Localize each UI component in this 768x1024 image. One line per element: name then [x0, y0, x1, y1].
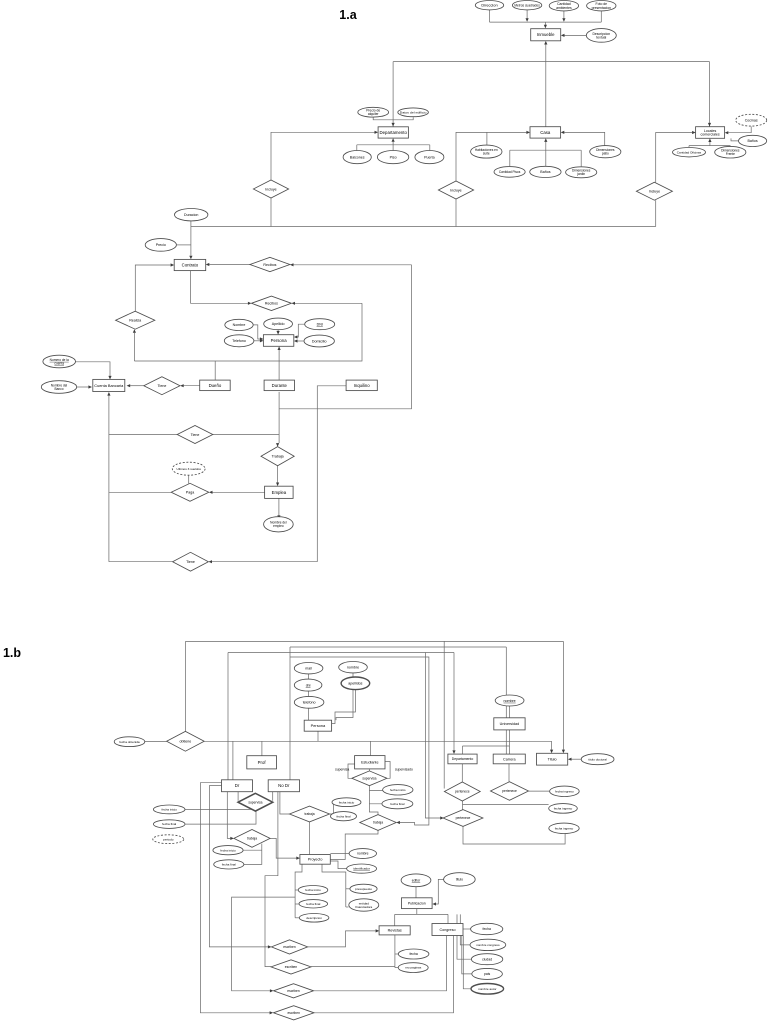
wire bus down to Titulo: [562, 641, 564, 749]
svg-text:Congreso: Congreso: [440, 928, 456, 932]
arrowhead: [526, 18, 529, 22]
attribute fecha final supervisa E: [382, 799, 413, 809]
svg-text:Inquilino: Inquilino: [354, 383, 371, 388]
attribute nombre congreso: [470, 939, 506, 950]
wire to ciudad: [457, 914, 471, 959]
wire to fecha: [395, 953, 399, 955]
attribute Dimensiones jardin: [566, 167, 597, 178]
wire Casa attribute bracket: [510, 149, 581, 151]
attribute Nombre del empleo: [264, 517, 294, 532]
wire to Estudiante top: [370, 741, 372, 755]
svg-text:Paga: Paga: [186, 491, 194, 495]
wire to Dueno top: [214, 361, 216, 380]
arrowhead into Persona top: [277, 331, 280, 335]
wire editor to Publicacion: [415, 887, 417, 898]
svg-text:Frente: Frente: [726, 152, 735, 156]
attribute presupuesto: [350, 884, 377, 893]
relationship supervisa Dr: [238, 793, 273, 811]
wire Incluye1 to bus: [270, 198, 272, 227]
svg-text:empleo: empleo: [273, 524, 284, 528]
svg-text:escriben: escriben: [283, 945, 296, 949]
arrowhead into Inmueble bottom: [544, 41, 547, 45]
wire trabaja A to Proyecto: [270, 838, 296, 858]
wire down to Carrera top: [505, 647, 507, 754]
wire Habitaciones en suite spur: [486, 132, 488, 145]
svg-text:1.b: 1.b: [3, 646, 21, 660]
wire Dr to escriben 4: [200, 783, 270, 1013]
wire bus branch to pertenece: [443, 641, 445, 788]
svg-text:Baños: Baños: [540, 170, 550, 174]
attribute Habitaciones en suite: [471, 145, 502, 158]
attribute Direccion: [475, 1, 503, 10]
attribute Nombre del Banco: [41, 381, 76, 394]
wire Dr-Departamento bus: [228, 652, 454, 654]
wire fecha obtencion to obtiene: [145, 740, 167, 742]
attribute Dimensiones patio: [590, 146, 621, 158]
attribute Apellido: [264, 318, 293, 330]
entity No Dr: [268, 780, 299, 792]
arrowhead into Titulo top: [562, 750, 565, 754]
svg-text:Cantidad Pisos: Cantidad Pisos: [499, 170, 521, 174]
arrowhead into pertenece 3: [440, 816, 444, 819]
svg-text:fecha obtenida: fecha obtenida: [119, 740, 140, 744]
wire bus down to obtiene top: [185, 641, 187, 731]
arrowhead into Persona right: [294, 339, 298, 342]
attribute fecha inicio trabaja A: [213, 846, 243, 855]
wire obtiene-Titulo bus: [186, 640, 564, 642]
attribute Cantidad Oficinas: [673, 148, 706, 157]
wire bracket to Locales bottom: [709, 142, 711, 146]
arrowhead into Persona left: [260, 337, 264, 340]
wire to Piso: [392, 145, 394, 151]
wire to Dimensiones jardin: [580, 150, 582, 166]
arrowhead into Casa left: [526, 131, 530, 134]
svg-text:Ultimos 3 sueldos: Ultimos 3 sueldos: [176, 467, 201, 471]
arrowhead into Titulo top: [550, 750, 553, 754]
wire No Dr-Carrera bus: [290, 646, 506, 648]
svg-text:fecha: fecha: [409, 952, 417, 956]
svg-text:apellidos: apellidos: [348, 682, 362, 686]
wire Estudiante supervisa loop left: [348, 764, 355, 778]
wire Universidad bracket: [463, 745, 510, 747]
svg-text:nombre congreso: nombre congreso: [476, 943, 500, 947]
attribute nro paginas: [398, 963, 428, 973]
svg-text:identificador: identificador: [353, 867, 370, 871]
svg-text:alquiler: alquiler: [368, 112, 380, 116]
relationship pertenece 1: [444, 782, 480, 801]
wire pertenece to pertenece 3: [462, 801, 464, 810]
arrowhead: [562, 18, 565, 22]
relationship trabaja C: [360, 815, 396, 831]
svg-text:presupuesto: presupuesto: [355, 887, 372, 891]
wire Dueno to Tiene: [184, 385, 200, 387]
wire Trabaja to Emplea: [277, 466, 279, 483]
svg-text:pais: pais: [484, 972, 491, 976]
arrowhead into Inmueble right: [561, 34, 565, 37]
attribute pais: [472, 968, 503, 979]
arrowhead into Persona bottom: [278, 346, 281, 350]
wire Incluye to Departamento: [271, 132, 375, 180]
attribute fecha revista: [398, 949, 429, 959]
wire trabaja A to fecha final: [244, 844, 262, 865]
wire mail-dni: [308, 674, 310, 680]
attribute fecha inicio trabaja B: [332, 798, 361, 807]
attribute ciudad: [471, 954, 502, 965]
wire Tiene 2 to Durante line: [213, 434, 279, 436]
attribute Dimensiones Frente: [715, 146, 746, 158]
wire down to Titulo: [551, 741, 553, 750]
svg-text:Contrato: Contrato: [182, 263, 199, 268]
entity Inmueble: [531, 29, 561, 41]
relationship Incluye 1: [253, 180, 288, 198]
svg-text:fecha ingreso: fecha ingreso: [555, 789, 574, 793]
svg-text:trabaja: trabaja: [304, 812, 314, 816]
svg-text:Publicacion: Publicacion: [408, 902, 426, 906]
arrowhead into Tiene right vertex: [180, 384, 184, 387]
svg-text:trabaja: trabaja: [373, 821, 383, 825]
svg-text:Emplea: Emplea: [272, 490, 287, 495]
svg-text:Cantidad Oficinas: Cantidad Oficinas: [677, 150, 702, 154]
svg-text:Domicilio: Domicilio: [312, 339, 327, 343]
wire titulo doctoral to Titulo: [571, 758, 582, 760]
wire to presupuesto: [346, 888, 350, 890]
arrowhead into Revistas left: [376, 929, 380, 932]
attribute fecha congreso: [471, 923, 503, 934]
svg-text:fecha final: fecha final: [162, 822, 176, 826]
svg-text:Trabaja: Trabaja: [272, 455, 284, 459]
attribute Nombre: [225, 319, 253, 330]
attribute Datos del edificio: [398, 108, 429, 117]
svg-text:Apellido: Apellido: [272, 322, 285, 326]
wire Universidad bottom: [508, 730, 510, 746]
wire Locales attribute bracket: [689, 145, 730, 147]
entity Publicacion: [402, 898, 433, 909]
svg-text:Datos del edificio: Datos del edificio: [400, 110, 427, 114]
svg-text:Recibos: Recibos: [265, 302, 278, 306]
wire Publicacion subtype bracket: [395, 913, 448, 915]
entity Dueno: [200, 380, 231, 391]
wire No Dr to escriben 2: [265, 792, 278, 967]
svg-text:nombre: nombre: [504, 699, 516, 703]
svg-text:Dr: Dr: [235, 783, 240, 788]
wire generalization bus horizontal: [393, 61, 709, 63]
attribute periodo: [153, 835, 184, 844]
attribute Foto de presentacion: [587, 1, 616, 11]
svg-text:Baños: Baños: [747, 139, 757, 143]
attribute nombre universidad: [495, 695, 524, 706]
wire Recibos loop down to Durante line: [279, 265, 411, 409]
arrowhead into Cuenta Bancaria right: [127, 384, 131, 387]
svg-text:fecha: fecha: [483, 927, 491, 931]
arrowhead into Paga right vertex: [209, 491, 213, 494]
svg-text:Prof: Prof: [258, 760, 267, 765]
svg-text:nombre: nombre: [347, 666, 359, 670]
attribute Ultimos 3 sueldos: [172, 462, 205, 475]
attribute entidad financiadora: [349, 899, 379, 911]
svg-text:1.a: 1.a: [339, 8, 357, 22]
attribute apellidos: [341, 677, 370, 690]
attribute Banos Casa: [530, 166, 561, 177]
wire No Dr to trabaja B: [280, 792, 290, 814]
wire to Tiene 3 left: [109, 561, 173, 563]
entity Carrera: [493, 754, 525, 764]
attribute Duracion: [175, 209, 208, 221]
svg-text:fecha final: fecha final: [390, 802, 404, 806]
svg-text:fecha ingreso: fecha ingreso: [554, 807, 573, 811]
wire bracket to Departamento bottom: [392, 142, 394, 145]
svg-text:Estudiante: Estudiante: [361, 761, 378, 765]
svg-text:Banco: Banco: [54, 387, 63, 391]
arrowhead into Tiene 3 right vertex: [208, 560, 212, 563]
wire Estudiante to supervisa: [368, 769, 370, 771]
arrowhead into Locales right: [725, 131, 729, 134]
wire Cocinas to Locales: [728, 126, 751, 132]
attribute Telefono: [224, 335, 254, 347]
wire trabaja C to Proyecto right: [330, 830, 378, 859]
attribute fecha final supervisa D: [153, 820, 185, 829]
wire trabaja B to fecha final: [331, 814, 334, 816]
wire escriben 1 to Revistas: [308, 931, 376, 947]
wire branch to pertenece 3 left: [425, 653, 440, 819]
arrowhead into Departamento top: [392, 123, 395, 127]
wire obtiene branch to Dr top: [232, 741, 234, 779]
entity Revistas: [379, 926, 410, 935]
svg-text:fecha final: fecha final: [306, 902, 320, 906]
wire Banos to Locales: [731, 138, 739, 141]
svg-text:pertenece: pertenece: [502, 789, 517, 793]
wire DNI to Persona: [297, 324, 304, 337]
relationship Recibos 2: [251, 296, 291, 310]
arrowhead into Cuenta Bancaria left: [88, 385, 92, 388]
attribute fecha ingreso 2: [549, 804, 578, 814]
entity Titulo: [537, 753, 568, 765]
wire Precio de alquiler / Datos del edificio bracket: [373, 117, 413, 120]
svg-text:nombre: nombre: [357, 852, 369, 856]
svg-text:Direccion: Direccion: [481, 3, 497, 8]
arrowhead into escriben 1: [268, 945, 272, 948]
svg-text:Titulo: Titulo: [548, 758, 557, 762]
svg-text:titulo doctoral: titulo doctoral: [588, 757, 607, 761]
arrowhead into Locales left: [692, 131, 696, 134]
svg-text:fecha inicio: fecha inicio: [339, 800, 355, 804]
arrowhead into trabaja A left vertex: [230, 837, 234, 840]
wire nombre to Universidad: [509, 706, 511, 718]
svg-text:descripcion: descripcion: [306, 916, 322, 920]
arrowhead into ellipse: [277, 515, 280, 519]
wire Departamento to pertenece: [461, 764, 463, 782]
wire Numero de la cuenta to Cuenta Bancaria top: [76, 362, 111, 376]
attribute fecha ingreso 3: [549, 823, 579, 833]
relationship Incluye 2: [438, 181, 473, 199]
wire titulo to Publicacion: [436, 879, 444, 904]
relationship escriben 4: [273, 1006, 314, 1020]
wire Persona bottom: [317, 731, 319, 741]
wire Proyecto to nombre: [330, 853, 349, 855]
wire Incluye2 to bus: [455, 199, 457, 227]
relationship Paga: [171, 483, 209, 501]
wire Recibos 2 loop to Realiza: [134, 303, 362, 361]
attribute Descripcion textual: [586, 29, 616, 43]
wire to Tiene 2 left: [109, 434, 177, 436]
wire Incluye bus horizontal: [191, 226, 656, 228]
wire pertenece 2 to fecha ingreso: [529, 790, 550, 792]
entity Locales comerciales: [696, 127, 725, 139]
relationship Tiene 3: [173, 552, 209, 571]
wire bus to Departamento: [392, 62, 394, 127]
wire to Paga left: [109, 491, 171, 493]
relationship trabaja B: [290, 806, 330, 822]
arrowhead into Cuenta Bancaria top: [108, 376, 111, 380]
wire trabaja B to fecha inicio: [330, 802, 334, 814]
wire Durante to Persona: [278, 350, 280, 380]
wire Durante to Trabaja: [278, 392, 280, 443]
attribute identificador: [347, 864, 377, 873]
entity Durante: [264, 380, 294, 391]
svg-text:suite: suite: [483, 152, 490, 156]
wire fecha final to supervisa: [185, 811, 256, 824]
relationship pertenece 2: [491, 782, 529, 801]
relationship Incluye 3: [636, 182, 672, 200]
arrowhead into Departamento bottom: [392, 138, 395, 142]
entity Estudiante: [355, 756, 385, 769]
arrowhead into Casa bottom: [544, 138, 547, 142]
attribute Domicilio: [304, 335, 334, 347]
wire Inquilino loop to Tiene 3: [212, 561, 317, 563]
wire trabaja B to Proyecto top: [309, 822, 311, 855]
attribute nombre persona: [339, 662, 368, 673]
arrowhead into Publicacion right: [432, 902, 436, 905]
wire telefono to Persona top: [308, 708, 310, 720]
wire fecha inicio to supervisa: [185, 808, 256, 810]
attribute Cocinas: [736, 114, 767, 126]
svg-text:nro paginas: nro paginas: [405, 966, 422, 970]
entity Cuenta Bancaria: [93, 379, 125, 391]
attribute titulo publicacion: [444, 873, 476, 886]
svg-text:DNI: DNI: [317, 323, 323, 327]
relationship Tiene 2: [177, 426, 213, 444]
svg-text:nombre autor: nombre autor: [478, 987, 496, 991]
svg-text:presentacion: presentacion: [592, 6, 612, 10]
wire to nombre congreso: [460, 914, 470, 945]
entity Persona 1b: [304, 720, 331, 731]
svg-text:Departamento: Departamento: [380, 130, 408, 135]
attribute fecha obtencion: [114, 737, 145, 747]
wire to Cantidad Oficinas: [688, 146, 690, 147]
arrowhead into Cuenta Bancaria bottom: [107, 392, 110, 396]
relationship supervisa Estudiante: [352, 771, 387, 786]
svg-text:obtiene: obtiene: [180, 740, 192, 744]
wire supervisa to trabaja C: [369, 804, 378, 815]
arrowhead into Casa right: [561, 131, 565, 134]
attribute Puerta: [415, 151, 444, 164]
wire supervisa to fecha final: [369, 791, 381, 804]
wire to Dimensiones Frente: [729, 146, 731, 147]
wire Realiza to Contrato: [135, 265, 170, 311]
arrowhead into Trabaja top: [276, 443, 279, 447]
entity Congreso: [432, 924, 463, 936]
wire Metros cuadrados to bracket: [526, 10, 528, 21]
relationship escriben 3: [274, 984, 314, 998]
svg-text:Balcones: Balcones: [350, 155, 365, 159]
wire to descripcion: [295, 917, 300, 919]
wire to fecha inicio: [295, 889, 299, 891]
svg-text:Casa: Casa: [540, 130, 551, 135]
svg-text:Telefono: Telefono: [232, 339, 246, 343]
attribute Piso: [377, 151, 408, 164]
arrowhead into Realiza bottom: [133, 329, 136, 333]
svg-text:telefono: telefono: [303, 701, 316, 705]
wire rail to escriben 3: [232, 897, 296, 991]
arrowhead into Contrato right: [206, 263, 210, 266]
attribute Numero de la cuenta: [43, 355, 76, 368]
svg-text:Tiene: Tiene: [186, 560, 195, 564]
wire right loop to Recibos 2: [295, 302, 362, 304]
attribute nombre autor: [471, 984, 504, 995]
arrowhead into escriben 3: [270, 989, 274, 992]
wire Dimensiones patio to Casa: [564, 132, 605, 145]
wire Emplea to Nombre del empleo: [278, 499, 280, 516]
svg-text:jardin: jardin: [576, 172, 585, 176]
svg-text:supervisa: supervisa: [248, 800, 262, 804]
svg-text:dni: dni: [306, 683, 311, 687]
svg-text:Nombre: Nombre: [233, 323, 246, 327]
svg-text:periodo: periodo: [163, 837, 174, 841]
svg-text:Inmueble: Inmueble: [537, 32, 555, 37]
svg-text:Tiene: Tiene: [191, 433, 200, 437]
attribute Cantidad Pisos: [494, 167, 525, 178]
arrowhead into Emplea top: [276, 483, 279, 487]
wire to entidad financiadora: [346, 906, 349, 908]
wire pertenece 3 to fecha ingreso 3: [463, 826, 565, 844]
wire Contrato to Recibos 2: [191, 271, 248, 304]
wire up to Realiza: [133, 333, 135, 361]
wire apellidos to Persona: [332, 689, 356, 723]
wire to Carrera top: [509, 746, 511, 754]
svg-text:fecha final: fecha final: [222, 863, 236, 867]
entity Proyecto: [300, 855, 330, 865]
wire bus to Locales comerciales: [709, 62, 711, 127]
arrowhead into Recibos right vertex: [290, 263, 294, 266]
entity Emplea: [265, 486, 294, 498]
svg-text:escriben: escriben: [287, 1011, 300, 1015]
svg-text:fecha inicio: fecha inicio: [390, 788, 406, 792]
svg-text:editor: editor: [412, 879, 421, 883]
svg-text:Revistas: Revistas: [388, 929, 402, 933]
wire Precio to Contrato line: [176, 244, 191, 246]
relationship pertenece 3: [443, 810, 483, 827]
svg-text:trabaja: trabaja: [247, 837, 257, 841]
relationship escriben 2: [271, 960, 311, 974]
wire Dr to trabaja A: [227, 792, 230, 839]
relationship Tiene 1: [144, 377, 180, 395]
arrowhead into Persona left: [260, 339, 264, 342]
wire Proyecto right attribute rail: [322, 864, 346, 907]
arrowhead into Contrato left: [171, 263, 175, 266]
svg-text:mail: mail: [305, 667, 312, 671]
wire Emplea to Paga: [212, 491, 264, 493]
wire Incluye to Casa: [456, 132, 526, 181]
svg-text:Precio: Precio: [156, 243, 166, 247]
attribute fecha inicio supervisa D: [153, 805, 185, 814]
wire bracket to Casa bottom: [545, 142, 547, 150]
wire to Banos: [545, 150, 547, 166]
wire down to Dr top: [227, 653, 229, 780]
svg-text:textual: textual: [596, 36, 606, 40]
wire to pais: [462, 936, 472, 974]
wire bracket to Inmueble top: [544, 22, 546, 25]
wire Domicilio to Persona: [297, 340, 304, 342]
svg-text:Persona: Persona: [271, 338, 288, 343]
